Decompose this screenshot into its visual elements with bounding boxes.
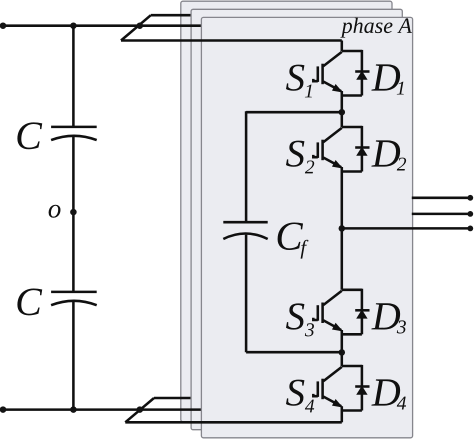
wire bottom bus branch to phase C panel	[154, 397, 192, 400]
diode D2 triangle	[357, 148, 367, 156]
label S3	[286, 303, 304, 329]
wire diode D2 bottom to emitter	[342, 170, 362, 173]
label D1	[371, 64, 400, 90]
transistor S3 emitter arrowhead	[333, 324, 342, 331]
transistor S2 gate lead	[313, 155, 318, 157]
transistor S3 gate lead	[313, 318, 318, 320]
diode D3 triangle	[357, 310, 367, 318]
wire collector to diode D2 top	[342, 126, 362, 129]
transistor S4 emitter diagonal	[323, 397, 341, 407]
transistor S2 body bar	[321, 140, 324, 161]
wire diode D4 anode lead	[361, 394, 364, 411]
wire diode D4 top lead	[361, 365, 364, 387]
label D4	[371, 379, 400, 405]
wire collector to diode D3 top	[342, 289, 362, 292]
transistor S1 cell	[286, 50, 404, 98]
wire phase B output	[412, 213, 471, 216]
transistor S3 cell	[286, 289, 406, 337]
transistor S4 gate lead	[313, 394, 318, 396]
diode D1 triangle	[357, 72, 367, 80]
label S4	[286, 380, 304, 406]
label C upper	[17, 122, 42, 149]
transistor S4 emitter arrowhead	[333, 400, 342, 407]
wire S3 emitter down to node P2	[341, 330, 344, 366]
transistor S2 cell	[286, 126, 406, 173]
label D3	[371, 303, 400, 329]
transistor S3 emitter diagonal	[323, 320, 341, 330]
wire top branch slant	[121, 15, 151, 40]
wire Cf upper lead	[245, 111, 248, 222]
capacitor Cf curved plate	[223, 234, 267, 240]
wire diode D1 anode lead	[361, 79, 364, 96]
transistor S3 gate plate	[317, 305, 320, 321]
wire collector to diode D4 top	[342, 365, 362, 368]
label o	[49, 205, 61, 218]
wire bottom bus branch to phase B panel	[140, 408, 202, 411]
wire diode D3 bottom to emitter	[342, 333, 362, 336]
transistor S1 gate lead	[313, 79, 318, 81]
wire left DC-link upper lead	[72, 26, 75, 127]
node phase A output junction	[339, 225, 346, 232]
label Cf	[278, 222, 303, 250]
label D2	[371, 140, 400, 166]
wire phase-leg top drop	[341, 41, 344, 52]
node bottom three-way branch	[137, 406, 144, 413]
node P2 junction S3/S4/Cf	[339, 349, 346, 356]
capacitor Cf top plate	[223, 221, 267, 224]
diode D1 cathode bar	[355, 70, 369, 73]
transistor S2 collector diagonal	[323, 128, 342, 142]
node phase B output terminal	[467, 211, 473, 217]
transistor S4 collector diagonal	[323, 367, 342, 381]
node bottom-left terminal	[0, 406, 6, 413]
wire Cf lower lead	[245, 235, 248, 353]
capacitor C2 top plate	[51, 291, 97, 294]
wire diode D1 top lead	[361, 50, 364, 72]
wire left DC-link lower lead	[72, 301, 75, 410]
transistor S4 body bar	[321, 379, 324, 400]
transistor S1 collector diagonal	[323, 52, 342, 66]
wire phase C output	[412, 197, 471, 200]
transistor S4 gate plate	[317, 381, 320, 397]
diode D4 cathode bar	[355, 385, 369, 388]
wire bottom branch slant	[125, 398, 154, 422]
node top bus / capacitor C junction	[70, 22, 77, 29]
transistor S2 gate plate	[317, 142, 320, 158]
capacitor C1 curved plate	[51, 136, 97, 140]
wire diode D4 bottom to emitter	[342, 409, 362, 412]
diode D2 cathode bar	[355, 146, 369, 149]
wire left DC-link middle lead	[72, 136, 75, 292]
wire diode D3 top lead	[361, 289, 364, 311]
node top three-way branch	[137, 22, 144, 29]
capacitor C2 curved plate	[51, 301, 97, 305]
node bottom bus / capacitor C junction	[70, 406, 77, 413]
wire Cf bottom connection	[246, 351, 342, 354]
wire diode D2 top lead	[361, 126, 364, 148]
node o midpoint	[70, 209, 77, 216]
wire S1 emitter down to node P1	[341, 91, 344, 127]
wire top DC bus	[1, 24, 140, 27]
label phase A	[340, 18, 412, 38]
wire phase A output	[342, 227, 471, 230]
transistor S1 gate plate	[317, 66, 320, 82]
diode D3 cathode bar	[355, 309, 369, 312]
node top-left terminal	[0, 22, 6, 29]
wire S2 emitter down to output node	[341, 167, 344, 290]
transistor S2 emitter diagonal	[323, 158, 341, 168]
transistor S1 emitter diagonal	[323, 82, 341, 92]
panel phase A (front card)	[201, 17, 412, 437]
transistor S1 emitter arrowhead	[333, 85, 342, 92]
panel phase C (back card)	[181, 1, 392, 421]
wire top bus branch to phase C panel	[151, 14, 192, 17]
wire diode D1 bottom to emitter	[342, 94, 362, 97]
node phase C output terminal	[467, 195, 473, 201]
wire Cf top connection	[246, 111, 342, 114]
label S2	[286, 141, 304, 167]
transistor S2 emitter arrowhead	[333, 161, 342, 168]
wire collector to diode D1 top	[342, 50, 362, 53]
transistor S1 body bar	[321, 64, 324, 84]
diode D4 triangle	[357, 387, 367, 395]
transistor S4 cell	[286, 365, 406, 413]
wire top bus into phase A panel	[121, 39, 342, 42]
wire top bus branch to phase B panel	[140, 24, 202, 27]
transistor S3 collector diagonal	[323, 291, 342, 305]
wire diode D3 anode lead	[361, 317, 364, 334]
wire S4 emitter down to bottom bus	[341, 406, 344, 422]
transistor S3 body bar	[321, 303, 324, 324]
wire diode D2 anode lead	[361, 155, 364, 172]
node phase A output terminal	[467, 226, 473, 232]
wire bottom bus into phase A panel	[125, 421, 341, 424]
label S1	[286, 65, 304, 91]
node P1 junction S1/S2/Cf	[339, 109, 346, 116]
wire bottom DC bus	[1, 408, 140, 411]
label C lower	[17, 289, 42, 316]
capacitor C1 top plate	[51, 126, 97, 129]
panel phase B (middle card)	[191, 9, 402, 429]
